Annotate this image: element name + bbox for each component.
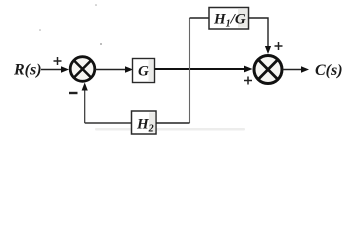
scan smudge bottom — [95, 128, 245, 131]
sign + at S1 left input — [54, 57, 62, 65]
wire branch down to H2 — [156, 122, 190, 124]
sign + at S2 top input — [275, 42, 283, 50]
wire S1 feedback bottom run to H2 — [85, 122, 132, 124]
wire branch to H1/G — [190, 17, 210, 19]
block H1/G — [209, 8, 249, 30]
wire S2 to C(s) — [283, 66, 310, 73]
sign - at S1 bottom feedback input — [69, 92, 78, 94]
wire branch vertical (node after G) — [189, 18, 191, 123]
scan noise specks — [39, 4, 102, 45]
wire H2 feedback up into S1 (with arrowhead) — [82, 83, 88, 124]
sign + at S2 left main input — [244, 77, 252, 85]
block H2 — [132, 111, 157, 135]
svg-text:C(s): C(s) — [315, 62, 343, 79]
block G — [133, 59, 155, 83]
wire H1/G to S2 (right, then down with arrowhead) — [249, 18, 272, 54]
wire G to S2 main line — [155, 66, 253, 73]
label R(s) — [13, 62, 42, 79]
wire R(s) to S1 — [41, 66, 69, 73]
wire S1 to G — [95, 66, 133, 73]
summing junction S1 — [70, 57, 95, 82]
label C(s) — [315, 62, 343, 79]
svg-text:G: G — [138, 64, 149, 80]
svg-text:R(s): R(s) — [13, 62, 42, 79]
summing junction S2 — [254, 56, 282, 84]
